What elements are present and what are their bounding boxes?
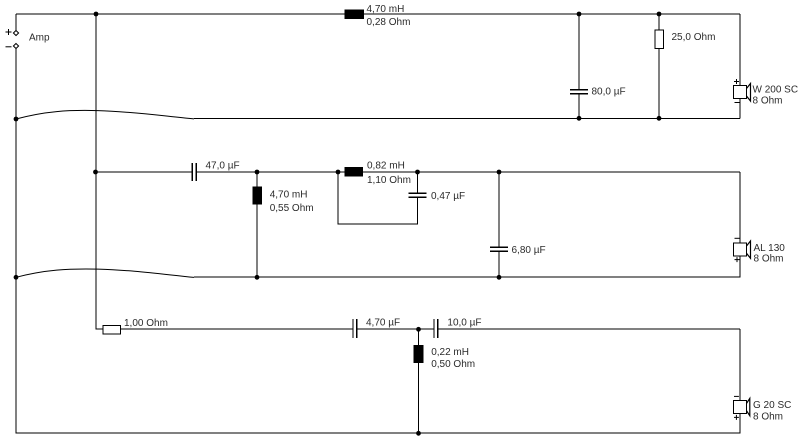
node amp minus to midrange return xyxy=(14,275,19,280)
svg-text:1,00 Ohm: 1,00 Ohm xyxy=(124,318,168,329)
node bypass left junction xyxy=(336,170,341,175)
svg-text:0,82 mH: 0,82 mH xyxy=(367,161,405,172)
speaker W 200 SC plus sign xyxy=(734,79,739,84)
wire midrange rail from 47uF cap to right vertical xyxy=(196,171,740,173)
node C4 bottom junction xyxy=(497,275,502,280)
node C1 top junction xyxy=(577,12,582,17)
svg-text:47,0 µF: 47,0 µF xyxy=(206,160,240,171)
svg-text:0,22 mH: 0,22 mH xyxy=(431,347,469,358)
svg-text:AL 130: AL 130 xyxy=(754,243,786,254)
node L4 bottom junction xyxy=(416,431,421,436)
capacitor C2 plates (47,0 uF) xyxy=(192,163,196,181)
inductor L3 body (0,82 mH) xyxy=(345,167,363,176)
speaker W 200 SC minus sign xyxy=(735,102,740,104)
wire capacitor C4 bottom lead xyxy=(498,251,500,277)
wire midrange rail from feed vertical to 47uF cap xyxy=(96,171,192,173)
wire woofer return rail straight part xyxy=(194,118,740,120)
wire capacitor C1 bottom lead xyxy=(578,94,580,119)
svg-text:0,47 µF: 0,47 µF xyxy=(431,191,465,202)
svg-text:8 Ohm: 8 Ohm xyxy=(753,411,783,422)
svg-text:8 Ohm: 8 Ohm xyxy=(753,96,783,107)
wire woofer return rail curved part from amp - junction xyxy=(16,110,194,119)
svg-text:0,28 Ohm: 0,28 Ohm xyxy=(367,17,411,28)
capacitor C6 plates (10,0 uF) xyxy=(434,319,438,338)
speaker G 20 SC plus sign xyxy=(734,415,739,420)
resistor R2 body (1,00 Ohm) xyxy=(103,326,121,334)
node C1 bottom junction xyxy=(577,116,582,121)
capacitor C5 plates (4,70 uF) xyxy=(353,319,357,338)
capacitor C3 plates (0,47 uF) xyxy=(409,193,427,197)
inductor L1 body (4,70 mH) xyxy=(345,10,365,20)
wire resistor R1 top lead xyxy=(658,14,660,30)
wire capacitor C1 top lead xyxy=(578,14,580,90)
wire tweeter feed corner to resistor R2 xyxy=(96,328,104,330)
speaker AL 130 cone xyxy=(747,241,751,258)
wire right vertical tweeter rail to G20 box xyxy=(739,329,741,400)
node L2 bottom junction xyxy=(255,275,260,280)
wire midrange return rail curved part from amp - junction xyxy=(16,269,194,277)
wire left vertical amp - terminal down to bottom rail xyxy=(15,49,17,434)
speaker AL 130 box xyxy=(734,243,747,256)
speaker W 200 SC cone xyxy=(747,84,751,102)
wire bypass loop right upper xyxy=(417,172,419,193)
svg-text:4,70 µF: 4,70 µF xyxy=(366,318,400,329)
node midrange rail tap xyxy=(93,170,98,175)
wire right vertical midrange rail to AL130 box xyxy=(739,172,741,243)
svg-text:10,0 µF: 10,0 µF xyxy=(447,318,481,329)
wire bypass loop left and bottom xyxy=(338,172,418,224)
wire left vertical from top-left corner to amp + terminal xyxy=(15,14,17,31)
speaker G 20 SC cone xyxy=(747,398,750,415)
resistor R1 body (25,0 Ohm) xyxy=(655,30,664,49)
node R1 top junction xyxy=(657,12,662,17)
speaker AL 130 minus sign xyxy=(735,237,740,239)
node amp minus to woofer return xyxy=(14,117,19,122)
speaker G 20 SC minus sign xyxy=(734,395,739,397)
svg-text:0,55 Ohm: 0,55 Ohm xyxy=(270,203,314,214)
node C4 top junction xyxy=(497,170,502,175)
node bypass right junction xyxy=(415,170,420,175)
svg-text:80,0 µF: 80,0 µF xyxy=(592,87,626,98)
wire woofer box to return rail xyxy=(739,99,741,119)
svg-text:G 20 SC: G 20 SC xyxy=(753,400,791,411)
wire resistor R1 bottom lead xyxy=(658,48,660,118)
wire capacitor C6 to right vertical xyxy=(438,328,740,330)
inductor L2 body (4,70 mH) xyxy=(253,187,263,205)
inductor L4 body (0,22 mH) xyxy=(414,345,424,363)
node L4 top junction xyxy=(416,327,421,332)
speaker AL 130 plus sign xyxy=(735,257,740,262)
wire bottom return rail xyxy=(16,432,740,434)
svg-text:1,10 Ohm: 1,10 Ohm xyxy=(367,175,411,186)
svg-text:Amp: Amp xyxy=(29,32,50,43)
amp + terminal diamond xyxy=(13,31,18,36)
speaker G 20 SC box xyxy=(734,401,747,414)
wire capacitor C5 to capacitor C6 xyxy=(357,328,434,330)
svg-text:4,70 mH: 4,70 mH xyxy=(270,189,308,200)
svg-text:6,80 µF: 6,80 µF xyxy=(512,245,546,256)
wire AL130 box to midrange return rail xyxy=(739,256,741,278)
wire feed vertical from top rail down to tweeter branch xyxy=(95,14,97,330)
svg-text:W 200 SC: W 200 SC xyxy=(753,84,799,95)
node L2 top junction xyxy=(255,170,260,175)
svg-text:8 Ohm: 8 Ohm xyxy=(754,253,784,264)
wire right vertical top rail to woofer box xyxy=(739,14,741,86)
amp - terminal diamond xyxy=(13,44,18,49)
wire capacitor C4 top lead xyxy=(498,172,500,247)
svg-text:4,70 mH: 4,70 mH xyxy=(367,4,405,15)
speaker W 200 SC box xyxy=(734,86,747,99)
wire top rail from amp+ to woofer xyxy=(16,13,740,15)
wire resistor R2 to capacitor C5 xyxy=(121,328,354,330)
amp - sign xyxy=(6,46,12,48)
wire midrange return rail straight part xyxy=(194,276,740,278)
node feed tap on top rail xyxy=(94,12,99,17)
capacitor C1 plates (80,0 uF) xyxy=(570,90,588,94)
node R1 bottom junction xyxy=(657,116,662,121)
wire inductor L4 branch vertical xyxy=(418,329,420,434)
wire G20 box to bottom rail xyxy=(739,414,741,434)
capacitor C4 plates (6,80 uF) xyxy=(490,247,508,251)
amp + sign xyxy=(6,29,12,35)
svg-text:0,50 Ohm: 0,50 Ohm xyxy=(431,359,475,370)
wire inductor L2 branch vertical xyxy=(256,172,258,278)
svg-text:25,0 Ohm: 25,0 Ohm xyxy=(672,32,716,43)
